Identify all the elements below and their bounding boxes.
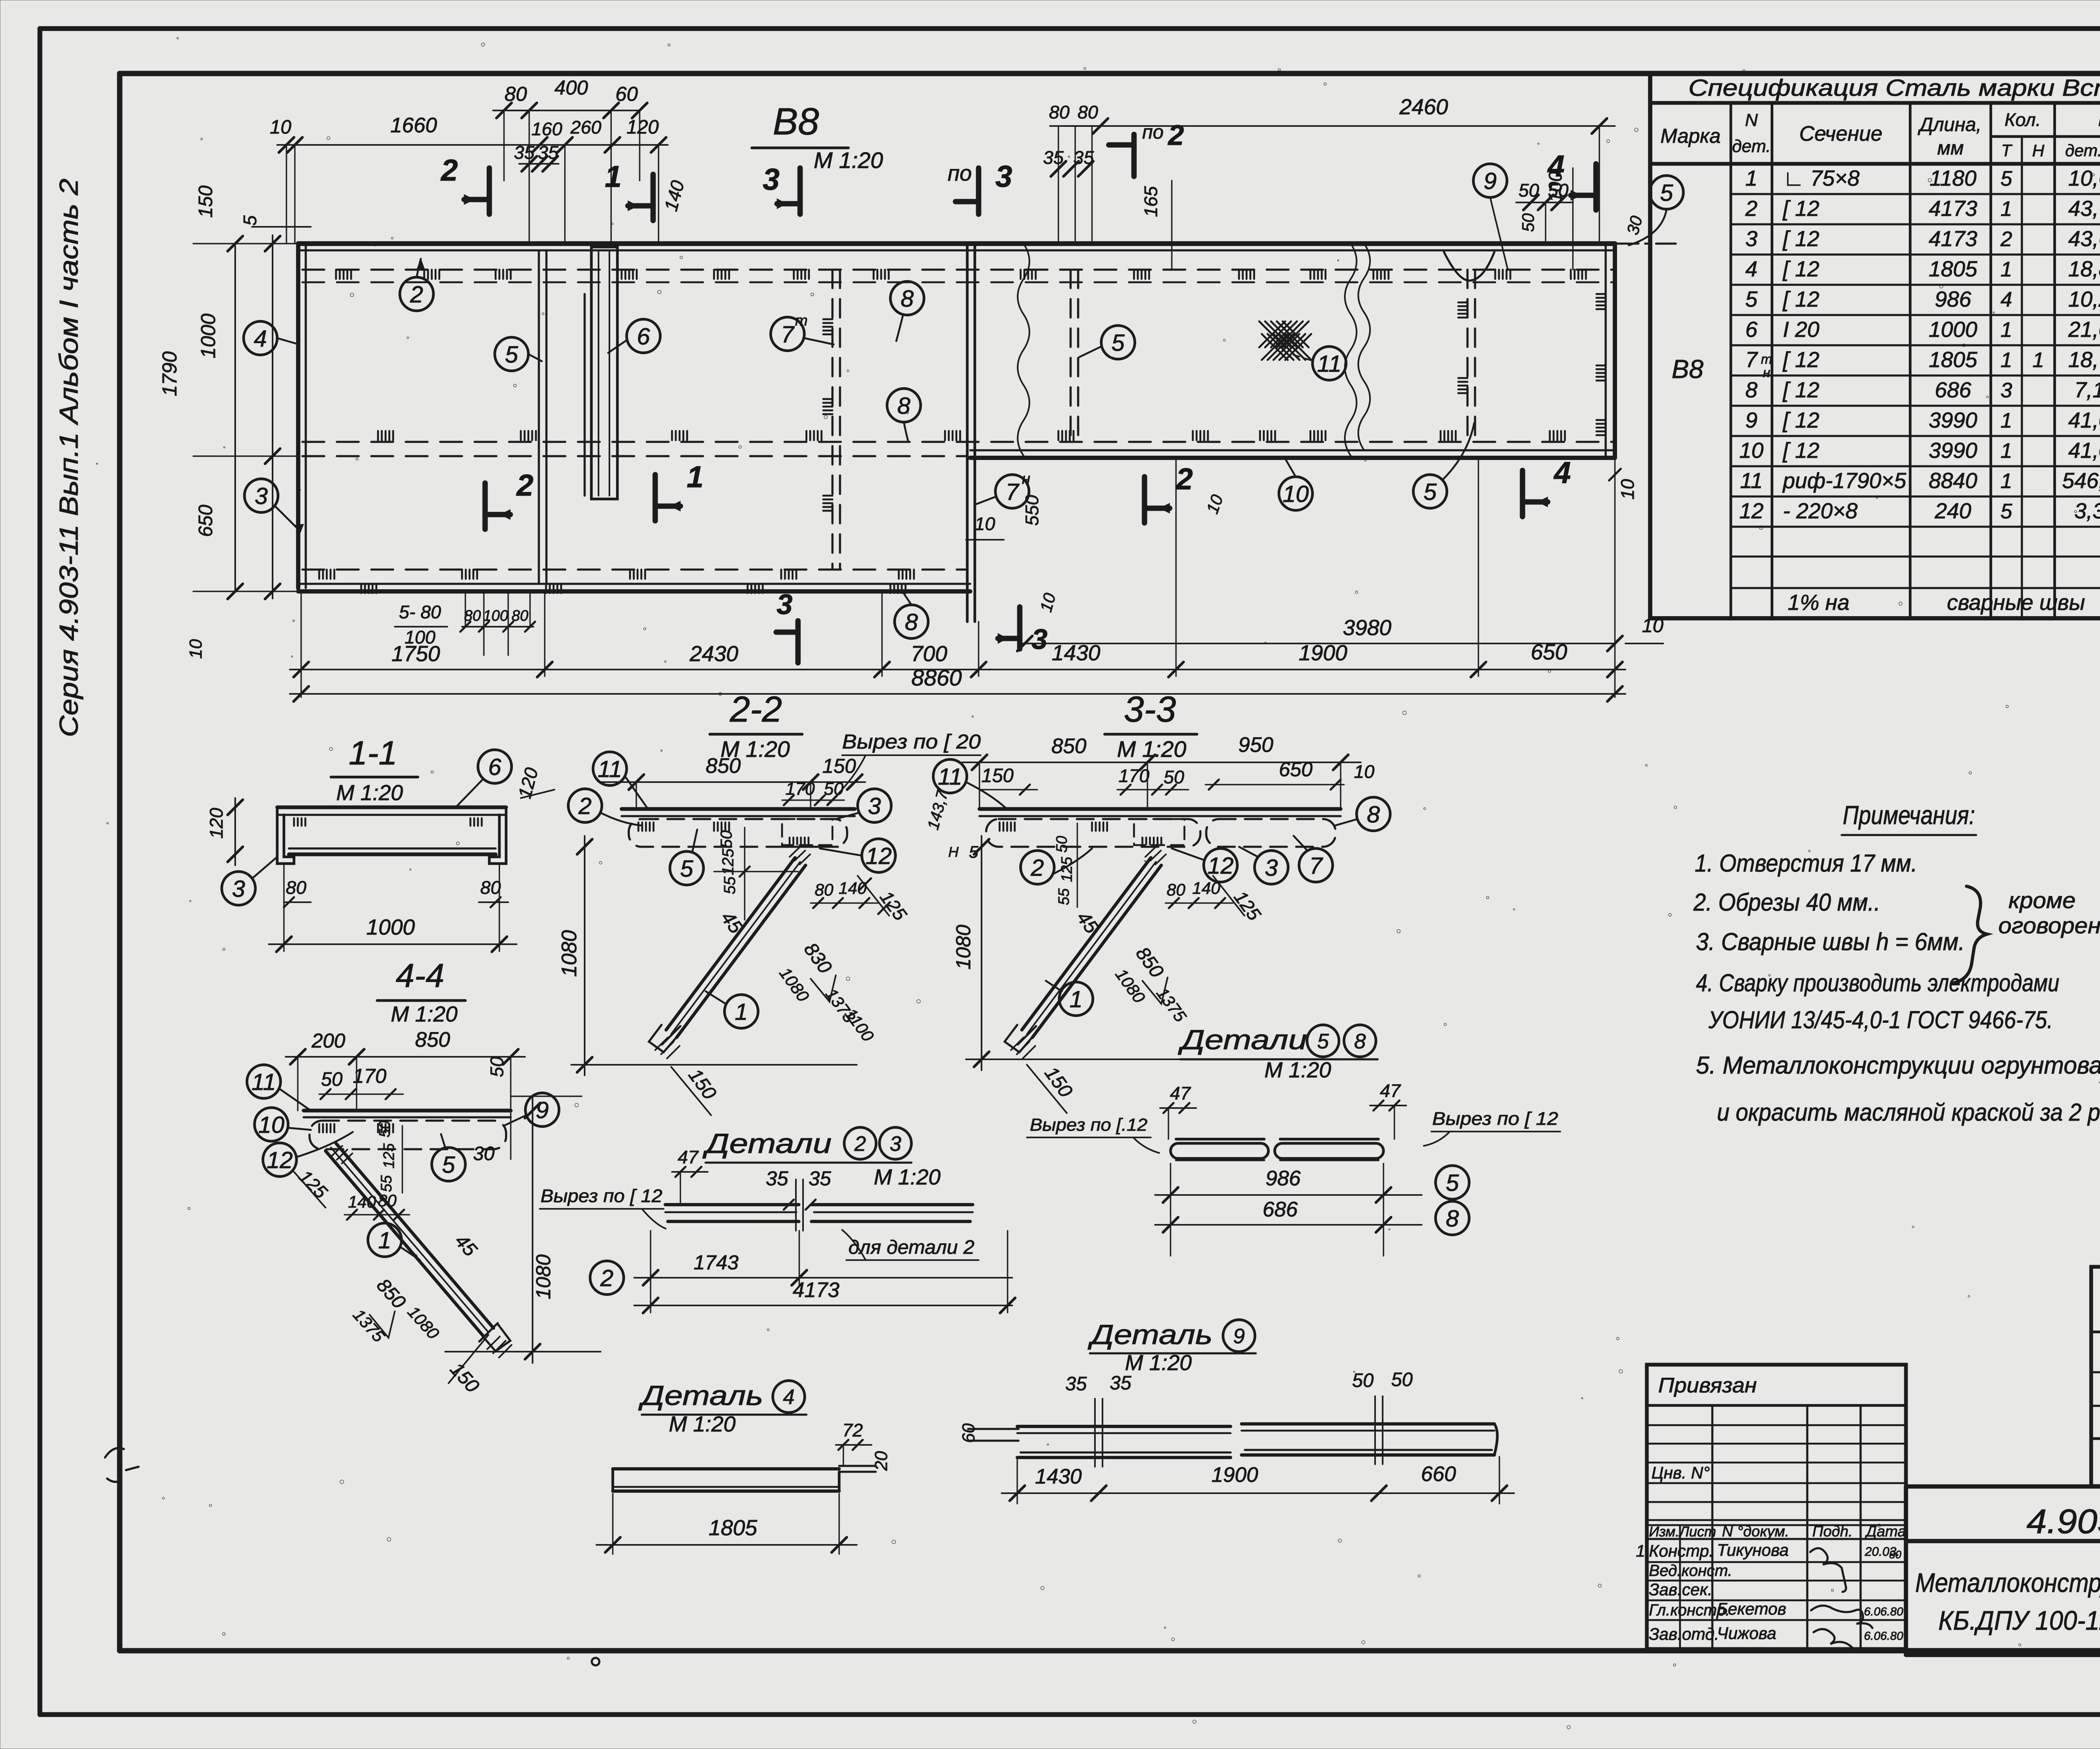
section 3-3 gusset at joint (1134, 819, 1184, 845)
svg-text:4-4: 4-4 (396, 957, 444, 994)
section 3-3 circles (933, 759, 1390, 1016)
svg-text:5: 5 (1317, 1029, 1329, 1053)
svg-text:1080: 1080 (953, 924, 975, 969)
svg-text:4: 4 (1553, 456, 1571, 490)
svg-text:Дата: Дата (1864, 1523, 1906, 1540)
svg-text:2: 2 (1167, 119, 1184, 151)
svg-text:1: 1 (1069, 986, 1082, 1012)
svg-text:М 1:20: М 1:20 (669, 1412, 736, 1436)
privyazan texts (1649, 1373, 1906, 1540)
plan dashed line lower band (302, 568, 966, 570)
specification table grid (1650, 74, 2100, 618)
circle 6 leader section 1-1 (456, 750, 512, 807)
svg-text:8: 8 (1746, 378, 1758, 402)
vyrez po C12 label left (540, 1186, 666, 1229)
detail 9 bars (1017, 1396, 1497, 1467)
svg-text:1: 1 (1636, 1542, 1645, 1560)
section 2-2 diagonal strut (649, 847, 810, 1058)
svg-text:7: 7 (1309, 852, 1323, 879)
svg-text:Деталь: Деталь (638, 1380, 763, 1411)
svg-text:12: 12 (866, 843, 892, 869)
svg-text:5: 5 (442, 1151, 455, 1178)
svg-text:140: 140 (1192, 879, 1221, 898)
svg-text:30: 30 (473, 1142, 495, 1164)
detail 4 title (638, 1380, 806, 1436)
section 2-2 top dims 850 150 170 50 (601, 754, 865, 809)
svg-text:10: 10 (1203, 492, 1227, 516)
svg-text:1: 1 (378, 1227, 391, 1253)
svg-text:[ 12: [ 12 (1782, 378, 1819, 402)
plan vertical member at joint x2310 (967, 244, 975, 622)
svg-text:1: 1 (735, 998, 748, 1025)
svg-text:4. Сварку производить электрод: 4. Сварку производить электродами (1696, 969, 2059, 997)
svg-text:3-3: 3-3 (1124, 689, 1176, 730)
svg-text:В8: В8 (1672, 355, 1704, 384)
svg-text:3: 3 (255, 483, 268, 509)
dim 35-35 left (514, 142, 559, 171)
svg-text:55: 55 (1055, 888, 1072, 905)
section marker 2 bottom left (483, 483, 488, 529)
svg-text:55: 55 (721, 876, 739, 894)
svg-text:4: 4 (2000, 288, 2012, 311)
svg-text:5: 5 (2000, 167, 2012, 190)
dim 3980 bottom right (1017, 616, 1622, 651)
svg-text:650: 650 (1279, 759, 1312, 781)
svg-text:по: по (948, 161, 972, 186)
svg-text:2460: 2460 (1399, 95, 1448, 119)
svg-text:200: 200 (311, 1030, 345, 1052)
plan vertical dashed member 7t (832, 270, 840, 570)
circle 2 in plan (400, 259, 433, 311)
svg-text:1: 1 (2000, 409, 2012, 432)
svg-text:[ 12: [ 12 (1782, 439, 1819, 463)
svg-text:5: 5 (1446, 1169, 1459, 1196)
svg-text:20: 20 (871, 1451, 891, 1471)
svg-text:8: 8 (905, 609, 918, 635)
section 3-3 top chord (979, 809, 1341, 816)
svg-text:Кол.: Кол. (2005, 110, 2041, 130)
section marker 2 top (487, 168, 492, 214)
svg-text:10: 10 (1617, 479, 1638, 499)
svg-text:Сечение: Сечение (1799, 122, 1882, 145)
svg-text:8: 8 (897, 392, 910, 419)
detail 9 left stub with dim 60 (958, 1423, 1018, 1443)
svg-text:для детали 2: для детали 2 (848, 1236, 974, 1258)
svg-text:5: 5 (1423, 478, 1437, 505)
section marker 4 bottom right (1520, 470, 1525, 517)
trebuetsya table grid (2091, 1267, 2100, 1486)
section marker 1 bottom (653, 475, 658, 521)
svg-text:35: 35 (1065, 1373, 1087, 1394)
svg-text:5: 5 (680, 855, 693, 882)
svg-text:3. Сварные швы h = 6мм.: 3. Сварные швы h = 6мм. (1696, 928, 1965, 956)
notes brace (1953, 886, 1987, 983)
svg-text:1660: 1660 (390, 113, 437, 137)
svg-text:170: 170 (1118, 766, 1150, 786)
svg-text:850: 850 (706, 754, 741, 777)
svg-text:120: 120 (627, 116, 659, 138)
plan bottom chord left part (298, 584, 970, 591)
detail 4 dim 1805 (596, 1494, 857, 1554)
svg-text:3990: 3990 (1929, 408, 1977, 433)
section 2-2 slope triangle 830 1373 1100 (776, 938, 877, 1045)
svg-text:2: 2 (409, 281, 423, 307)
svg-text:1: 1 (2000, 348, 2012, 372)
svg-text:3,3: 3,3 (2074, 499, 2100, 523)
svg-text:50: 50 (321, 1068, 343, 1090)
detail 5-8 dims 47 47 (1160, 1081, 1406, 1139)
circle 10 below plan (1279, 459, 1312, 510)
svg-text:Примечания:: Примечания: (1843, 801, 1975, 830)
svg-text:12: 12 (1207, 852, 1234, 879)
section 2-2 title (710, 689, 802, 762)
section 2-2 small dims 50 125 55 (714, 827, 798, 920)
section 4-4 circle 1 and 45 (368, 1223, 482, 1261)
svg-text:8840: 8840 (1929, 469, 1977, 493)
svg-text:Вед.конст.: Вед.конст. (1649, 1562, 1732, 1580)
dim 10-1660-160-260-120 row (270, 113, 668, 244)
svg-text:260: 260 (570, 117, 601, 138)
svg-text:М 1:20: М 1:20 (814, 148, 883, 173)
svg-text:Цнв. N°: Цнв. N° (1651, 1464, 1710, 1482)
svg-text:Длина,: Длина, (1917, 113, 1982, 135)
svg-text:120: 120 (206, 808, 227, 839)
svg-text:Детали: Детали (702, 1128, 832, 1159)
svg-text:кроме: кроме (2008, 888, 2076, 913)
svg-text:120: 120 (514, 765, 542, 801)
section 2-2 top chord (622, 809, 855, 816)
section 4-4 dims 50 170 50 (319, 1056, 507, 1099)
svg-text:6: 6 (637, 323, 650, 349)
svg-text:1900: 1900 (1299, 641, 1347, 665)
svg-text:5- 80: 5- 80 (399, 602, 441, 622)
circle 5 in plan middle (1079, 326, 1135, 359)
svg-text:дет.: дет. (2065, 142, 2100, 160)
circle 4 in plan with leader (244, 321, 299, 355)
svg-text:9: 9 (1233, 1324, 1245, 1348)
svg-text:Вырез по [ 12: Вырез по [ 12 (541, 1186, 662, 1206)
svg-text:2430: 2430 (689, 642, 738, 666)
svg-text:10: 10 (258, 1111, 284, 1138)
svg-text:10: 10 (1354, 762, 1375, 782)
svg-text:11: 11 (938, 763, 962, 790)
svg-text:7: 7 (781, 321, 795, 347)
section marker 2 bottom right (1144, 462, 1227, 523)
section 4-4 title (377, 957, 465, 1027)
svg-text:7,1: 7,1 (2074, 378, 2100, 402)
svg-text:986: 986 (1265, 1166, 1301, 1190)
svg-text:[ 12: [ 12 (1782, 257, 1819, 281)
svg-text:1080: 1080 (1112, 965, 1149, 1006)
svg-text:5: 5 (1660, 179, 1673, 206)
svg-text:1: 1 (2032, 348, 2044, 372)
plan dashed flange line upper (302, 270, 1613, 282)
svg-text:21,0: 21,0 (2068, 318, 2100, 342)
section 2-2 circles (568, 752, 895, 1028)
specification rows data (1672, 166, 2100, 615)
section 1-1 channel body (277, 807, 506, 864)
detail 2-3 dim 47 (672, 1147, 708, 1205)
svg-text:1180: 1180 (1929, 166, 1977, 191)
svg-text:∟ 75×8: ∟ 75×8 (1783, 166, 1860, 191)
circle 8 lower in plan (887, 389, 921, 441)
svg-text:Детали: Детали (1177, 1024, 1307, 1055)
riffled plate hatch mark (1259, 321, 1311, 360)
section marker 3 top (763, 163, 800, 214)
svg-text:Н: Н (2032, 142, 2045, 160)
svg-text:риф-1790×5: риф-1790×5 (1782, 469, 1907, 493)
small dims 5-80 100 under left part (395, 591, 535, 655)
svg-text:Масса, кг: Масса, кг (2098, 108, 2100, 131)
section 2-2 slab dashed outline (629, 819, 847, 847)
svg-text:4173: 4173 (1929, 227, 1977, 251)
svg-text:686: 686 (1935, 378, 1971, 402)
svg-text:143,7: 143,7 (924, 788, 952, 832)
section 4-4 top dims 200 850 (286, 1028, 525, 1159)
svg-text:170: 170 (353, 1065, 386, 1087)
circle 5 below plan right (1413, 423, 1474, 508)
svg-text:3: 3 (232, 875, 245, 902)
svg-text:1430: 1430 (1035, 1465, 1081, 1488)
dim 35 35 middle (1043, 147, 1094, 176)
plan centerline extension right (1615, 242, 1676, 244)
svg-text:3: 3 (777, 588, 793, 620)
svg-text:35: 35 (1110, 1372, 1131, 1394)
circle 5 in plan left (495, 337, 542, 371)
svg-text:170: 170 (785, 779, 815, 798)
cutout arc top right (1444, 252, 1494, 281)
note 5 (1696, 1052, 2100, 1126)
note 4 (1696, 969, 2059, 1034)
plan vertical member piece 6 (I-beam) (585, 247, 617, 499)
svg-text:8860: 8860 (911, 665, 962, 691)
svg-text:6: 6 (488, 754, 501, 780)
svg-text:45: 45 (1073, 907, 1103, 938)
svg-text:т: т (795, 312, 808, 329)
circle 8 upper in plan (890, 281, 924, 341)
svg-text:Вырез по [.12: Вырез по [.12 (1030, 1115, 1147, 1134)
svg-text:Привязан: Привязан (1658, 1373, 1757, 1397)
dim 80-400-60 top (493, 77, 647, 244)
svg-text:1080: 1080 (557, 930, 581, 977)
section 2-2 dim 1080 vertical (557, 836, 857, 1075)
detail 2-3 title (702, 1127, 940, 1190)
svg-text:35: 35 (808, 1168, 831, 1190)
svg-text:5: 5 (2000, 499, 2012, 523)
section 4-4 circles left (247, 1065, 353, 1177)
svg-text:[ 12: [ 12 (1782, 227, 1819, 251)
svg-text:125: 125 (380, 1143, 397, 1169)
svg-text:12: 12 (1739, 499, 1764, 523)
svg-text:1375: 1375 (1153, 984, 1190, 1025)
svg-text:Бекетов: Бекетов (1717, 1600, 1786, 1618)
svg-text:550: 550 (1022, 495, 1042, 526)
svg-text:Зав.сек.: Зав.сек. (1649, 1581, 1712, 1599)
svg-text:N °докум.: N °докум. (1722, 1523, 1789, 1540)
svg-text:дет.: дет. (1732, 136, 1771, 156)
section 4-4 member (304, 1111, 511, 1149)
detail 5-8 title (1177, 1024, 1378, 1082)
svg-text:Деталь: Деталь (1087, 1319, 1213, 1350)
svg-text:1900: 1900 (1211, 1463, 1258, 1486)
svg-text:35: 35 (538, 142, 559, 163)
svg-text:3: 3 (1746, 227, 1758, 251)
svg-text:4: 4 (783, 1385, 795, 1409)
svg-text:150: 150 (822, 755, 856, 777)
svg-text:11: 11 (1317, 350, 1341, 377)
circle 3 leader section 1-1 (222, 857, 277, 905)
svg-text:КБ.ДПУ 100-120: КБ.ДПУ 100-120 (1938, 1605, 2100, 1636)
svg-text:950: 950 (1238, 733, 1273, 756)
plan bottom chord right part (970, 450, 1615, 458)
svg-text:850: 850 (1051, 734, 1087, 758)
section marker po 2 (1109, 119, 1184, 176)
dims 80 80 1000 section 1-1 (269, 864, 517, 952)
svg-text:150: 150 (1040, 1062, 1077, 1101)
section 3-3 top dims 850 950 150 170 50 650 10 (962, 733, 1375, 809)
svg-text:М 1:20: М 1:20 (336, 781, 403, 805)
svg-text:11: 11 (598, 756, 622, 782)
svg-text:6.06.80: 6.06.80 (1864, 1605, 1903, 1618)
svg-text:1: 1 (2000, 318, 2012, 341)
svg-text:30: 30 (1623, 214, 1646, 236)
detail 9 title (1087, 1319, 1256, 1375)
svg-text:7: 7 (1005, 478, 1019, 505)
svg-text:50: 50 (1519, 213, 1538, 232)
svg-text:Изм.Лист: Изм.Лист (1649, 1524, 1716, 1540)
svg-text:50: 50 (1391, 1368, 1413, 1390)
svg-text:9: 9 (535, 1097, 549, 1123)
svg-text:1-1: 1-1 (349, 734, 397, 772)
svg-text:Тикунова: Тикунова (1717, 1541, 1789, 1560)
svg-text:400: 400 (554, 77, 588, 99)
section 3-3 dim 1080 vertical (953, 836, 1214, 1070)
svg-text:1743: 1743 (694, 1252, 739, 1274)
svg-text:[ 12: [ 12 (1782, 287, 1819, 312)
section 4-4 dim 1080 vertical right (445, 1096, 601, 1397)
svg-text:10,2: 10,2 (2068, 287, 2100, 312)
svg-text:5: 5 (1111, 329, 1125, 356)
svg-text:М 1:20: М 1:20 (391, 1002, 458, 1027)
svg-text:1: 1 (605, 160, 622, 194)
svg-text:6.06.80: 6.06.80 (1864, 1629, 1903, 1642)
svg-text:660: 660 (1421, 1462, 1456, 1486)
svg-text:8: 8 (1367, 801, 1380, 827)
svg-text:1: 1 (687, 460, 703, 494)
dim 50 50 top right (1516, 180, 1573, 244)
svg-text:10: 10 (975, 514, 995, 534)
svg-text:1: 1 (2000, 469, 2012, 493)
svg-text:4: 4 (1547, 150, 1564, 183)
svg-text:4173: 4173 (1929, 197, 1977, 221)
svg-text:100: 100 (483, 607, 508, 624)
svg-text:650: 650 (194, 504, 216, 537)
svg-text:4: 4 (254, 325, 267, 352)
svg-text:3990: 3990 (1929, 439, 1977, 463)
svg-text:10: 10 (186, 639, 205, 659)
svg-text:Подh.: Подh. (1812, 1523, 1853, 1540)
svg-text:Марка: Марка (1660, 125, 1720, 147)
svg-text:Н: Н (948, 844, 959, 860)
svg-text:1805: 1805 (1929, 257, 1978, 281)
svg-text:165: 165 (1141, 186, 1161, 217)
svg-text:80: 80 (1049, 102, 1070, 123)
svg-text:2-2: 2-2 (730, 689, 782, 730)
svg-text:10,6: 10,6 (2068, 166, 2100, 191)
svg-text:41,0: 41,0 (2068, 439, 2100, 463)
svg-text:5: 5 (240, 215, 260, 226)
svg-text:5: 5 (505, 341, 518, 368)
svg-text:9: 9 (1746, 408, 1758, 433)
svg-text:8: 8 (900, 285, 913, 312)
svg-text:1: 1 (2000, 439, 2012, 462)
svg-text:М 1:20: М 1:20 (1125, 1351, 1192, 1375)
svg-text:43,7: 43,7 (2068, 197, 2100, 221)
svg-text:10: 10 (1283, 481, 1309, 507)
svg-text:546,0: 546,0 (2062, 469, 2100, 493)
svg-text:650: 650 (1531, 640, 1567, 664)
svg-text:45: 45 (717, 907, 747, 938)
section 3-3 title (1105, 689, 1197, 762)
svg-text:700: 700 (911, 642, 948, 666)
svg-text:50: 50 (487, 1056, 507, 1077)
dlya detali 2 label (842, 1230, 979, 1260)
svg-text:Вырез по [ 20: Вырез по [ 20 (842, 731, 981, 753)
svg-text:47: 47 (1170, 1083, 1191, 1104)
svg-text:2: 2 (1745, 197, 1758, 221)
svg-text:10: 10 (1739, 439, 1764, 463)
detail 4 bar (613, 1466, 876, 1491)
right edge dims 10 10 (1609, 469, 1664, 643)
svg-text:1080: 1080 (533, 1254, 555, 1299)
section 3-3 dims 45 80 140 125 base 150 (1027, 876, 1265, 1113)
circle 8 bottom (895, 592, 928, 638)
svg-text:850: 850 (1131, 943, 1168, 982)
dim 165 rotated (1141, 181, 1172, 270)
svg-text:I 20: I 20 (1783, 318, 1819, 342)
section 4-4 diagonal strut (325, 1143, 512, 1358)
svg-text:1080: 1080 (776, 964, 813, 1005)
circle 11 in plan with leader to hatch (1294, 347, 1346, 380)
svg-text:7: 7 (1746, 348, 1759, 372)
svg-text:4173: 4173 (793, 1278, 839, 1302)
svg-text:1000: 1000 (197, 313, 220, 358)
svg-text:2: 2 (578, 793, 591, 819)
svg-text:125: 125 (1058, 856, 1075, 882)
svg-text:3: 3 (2000, 378, 2012, 402)
plan break wavy line left (1018, 244, 1029, 456)
svg-text:60: 60 (615, 83, 638, 105)
detail 5-8 dims 986 686 (1155, 1163, 1469, 1256)
svg-text:по: по (1142, 121, 1164, 143)
svg-text:45: 45 (451, 1230, 481, 1261)
svg-text:80: 80 (1889, 1548, 1901, 1561)
vyrez po C20 label (827, 731, 981, 804)
svg-text:6: 6 (1746, 318, 1758, 342)
svg-text:55: 55 (378, 1175, 395, 1192)
svg-text:80: 80 (1078, 102, 1098, 123)
circle 9 with leader (1473, 164, 1508, 270)
circle 3 left below plan (244, 479, 304, 533)
svg-text:80: 80 (286, 877, 307, 898)
svg-text:830: 830 (800, 938, 836, 977)
svg-text:2: 2 (1175, 462, 1193, 496)
svg-text:1000: 1000 (366, 915, 415, 940)
svg-text:2: 2 (854, 1132, 866, 1155)
svg-text:50: 50 (1164, 767, 1184, 788)
svg-text:160: 160 (531, 119, 562, 139)
detail 9 dims 35 35 50 50 (1065, 1368, 1413, 1394)
